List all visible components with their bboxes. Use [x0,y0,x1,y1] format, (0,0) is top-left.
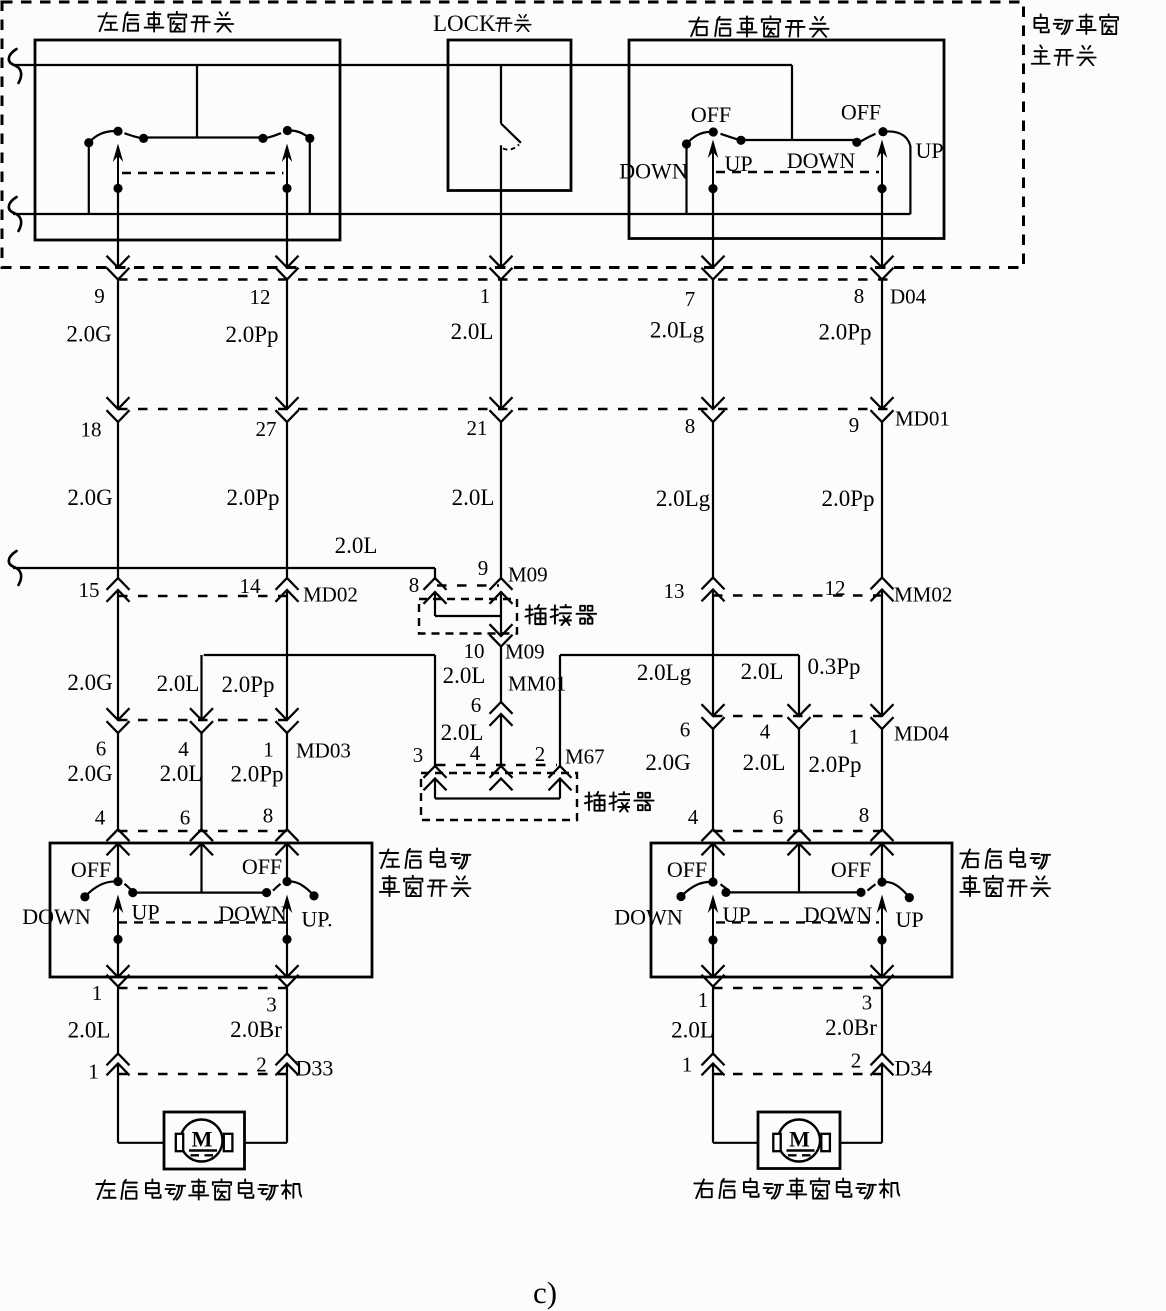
svg-text:MD01: MD01 [895,407,950,431]
svg-text:2.0G: 2.0G [645,750,690,775]
svg-text:4: 4 [688,805,699,829]
svg-text:10: 10 [464,639,485,663]
svg-text:c): c) [533,1275,557,1310]
svg-text:2.0L: 2.0L [452,485,495,510]
svg-text:18: 18 [81,418,102,442]
svg-text:9: 9 [94,284,105,308]
svg-text:MM01: MM01 [508,672,566,696]
svg-text:DOWN: DOWN [787,148,856,173]
svg-text:4: 4 [470,741,481,765]
svg-text:12: 12 [825,576,846,600]
svg-text:MD04: MD04 [894,722,949,746]
svg-text:DOWN: DOWN [22,904,91,929]
svg-text:2: 2 [256,1053,267,1077]
svg-text:2.0L: 2.0L [451,319,494,344]
svg-text:OFF: OFF [691,102,731,127]
svg-text:13: 13 [664,579,685,603]
svg-text:2.0L: 2.0L [443,663,486,688]
svg-text:2.0Pp: 2.0Pp [226,485,279,510]
svg-text:2.0Lg: 2.0Lg [650,318,705,343]
svg-text:OFF: OFF [841,100,881,125]
svg-text:OFF: OFF [831,857,871,882]
svg-text:2.0Lg: 2.0Lg [656,486,711,511]
svg-text:2.0Pp: 2.0Pp [230,762,283,787]
svg-text:4: 4 [178,737,189,761]
svg-text:2.0L: 2.0L [741,659,784,684]
svg-text:3: 3 [413,743,424,767]
svg-text:2.0G: 2.0G [67,670,112,695]
svg-text:OFF: OFF [71,857,111,882]
svg-text:2.0Br: 2.0Br [825,1015,877,1040]
svg-text:1: 1 [849,725,860,749]
svg-text:DOWN: DOWN [614,905,683,930]
svg-text:4: 4 [760,720,771,744]
svg-text:2.0G: 2.0G [67,761,112,786]
svg-text:9: 9 [849,413,860,437]
svg-text:MD02: MD02 [303,583,358,607]
svg-text:2.0Pp: 2.0Pp [808,752,861,777]
svg-text:2.0L: 2.0L [160,761,203,786]
svg-text:UP.: UP. [301,907,332,932]
svg-text:7: 7 [685,287,696,311]
svg-text:2.0L: 2.0L [743,750,786,775]
svg-text:3: 3 [862,991,873,1015]
svg-text:2.0G: 2.0G [67,485,112,510]
svg-text:OFF: OFF [242,854,282,879]
svg-text:3: 3 [266,993,277,1017]
svg-text:2.0L: 2.0L [68,1018,111,1043]
svg-text:1: 1 [263,738,274,762]
svg-text:2.0Pp: 2.0Pp [225,322,278,347]
svg-text:8: 8 [685,414,696,438]
svg-text:M09: M09 [505,640,545,664]
svg-text:MM02: MM02 [894,583,952,607]
svg-text:DOWN: DOWN [218,901,287,926]
svg-text:M67: M67 [565,745,605,769]
svg-text:M: M [789,1127,810,1152]
svg-text:2: 2 [535,742,546,766]
svg-text:1: 1 [88,1060,99,1084]
svg-text:D04: D04 [890,285,927,309]
svg-text:1: 1 [682,1053,693,1077]
svg-text:2.0G: 2.0G [66,322,111,347]
svg-text:2.0Lg: 2.0Lg [637,660,692,685]
svg-text:0.3Pp: 0.3Pp [807,654,860,679]
svg-text:27: 27 [256,417,277,441]
svg-text:6: 6 [471,693,482,717]
svg-text:OFF: OFF [667,857,707,882]
svg-text:2.0L: 2.0L [335,533,378,558]
svg-text:DOWN: DOWN [804,902,873,927]
svg-text:21: 21 [467,416,488,440]
svg-text:4: 4 [95,806,106,830]
svg-text:2.0Pp: 2.0Pp [821,486,874,511]
svg-text:UP: UP [895,907,923,932]
svg-text:2.0Pp: 2.0Pp [818,320,871,345]
svg-text:UP: UP [724,151,752,176]
svg-text:UP: UP [915,138,943,163]
svg-text:6: 6 [180,806,191,830]
svg-text:2.0L: 2.0L [157,671,200,696]
svg-text:8: 8 [409,573,420,597]
svg-text:LOCK: LOCK [433,11,496,36]
svg-text:14: 14 [240,574,262,598]
svg-text:D33: D33 [296,1056,334,1081]
svg-text:6: 6 [96,737,107,761]
svg-text:9: 9 [478,556,489,580]
svg-text:M09: M09 [508,563,548,587]
svg-text:8: 8 [854,284,865,308]
svg-text:8: 8 [859,803,870,827]
svg-text:DOWN: DOWN [619,159,688,184]
svg-text:2.0L: 2.0L [671,1018,714,1043]
svg-text:2.0Pp: 2.0Pp [221,672,274,697]
svg-text:1: 1 [480,284,491,308]
svg-text:UP: UP [722,902,750,927]
svg-text:UP: UP [131,900,159,925]
svg-text:12: 12 [250,285,271,309]
svg-text:15: 15 [79,578,100,602]
svg-text:1: 1 [92,981,103,1005]
svg-text:6: 6 [773,805,784,829]
svg-text:8: 8 [263,804,274,828]
svg-text:1: 1 [698,988,709,1012]
svg-text:D34: D34 [895,1056,933,1081]
svg-text:MD03: MD03 [296,739,351,763]
svg-text:M: M [192,1127,213,1152]
svg-text:2: 2 [851,1049,862,1073]
svg-text:2.0Br: 2.0Br [230,1017,282,1042]
svg-text:6: 6 [680,718,691,742]
